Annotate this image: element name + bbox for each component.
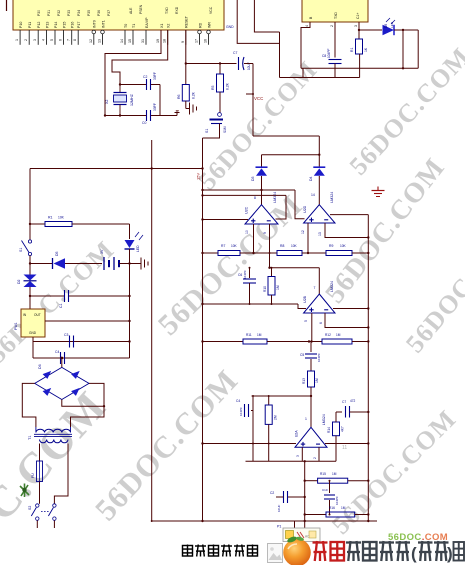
svg-text:GND: GND [29,331,37,335]
svg-text:10: 10 [245,230,249,234]
svg-text:3: 3 [33,39,37,41]
svg-text:P17: P17 [77,22,81,28]
svg-text:8.2K: 8.2K [226,82,230,90]
svg-text:15: 15 [128,39,132,43]
svg-text:): ) [447,544,453,563]
svg-text:10K: 10K [340,244,347,248]
svg-text:104PF: 104PF [335,496,339,505]
svg-text:FU: FU [31,473,35,478]
svg-text:30PF: 30PF [153,103,157,111]
svg-text:2M: 2M [274,415,278,420]
svg-text:C0: C0 [142,121,146,125]
svg-text:P31: P31 [47,10,51,16]
svg-text:C8: C8 [322,54,326,58]
svg-text:2: 2 [330,25,334,27]
svg-text:31: 31 [141,39,145,43]
svg-text:X2: X2 [105,100,109,104]
svg-text:LED: LED [390,21,394,28]
svg-text:16: 16 [204,39,208,43]
svg-text:C4: C4 [236,399,240,403]
svg-text:R8: R8 [280,244,284,248]
svg-text:ALE: ALE [129,7,133,14]
svg-text:12: 12 [301,230,305,234]
svg-text:104PF: 104PF [327,49,331,58]
svg-text:3: 3 [354,25,358,27]
svg-text:R1: R1 [48,216,53,220]
svg-text:2: 2 [24,39,28,41]
svg-text:P37: P37 [107,10,111,16]
svg-text:LM324: LM324 [330,192,334,203]
svg-text:X1: X1 [160,24,164,28]
svg-text:1M: 1M [332,472,337,476]
svg-text:P15: P15 [62,22,66,28]
svg-text:R14: R14 [327,427,331,433]
svg-text:9: 9 [181,41,185,43]
svg-text:17: 17 [195,39,199,43]
svg-text:P13: P13 [45,22,49,28]
svg-text:12MHZ: 12MHZ [130,93,134,106]
svg-text:472: 472 [350,399,356,403]
svg-text:D5: D5 [55,251,59,256]
svg-text:12: 12 [89,39,93,43]
svg-text:10K: 10K [231,244,238,248]
svg-text:7: 7 [67,39,71,41]
svg-text:13: 13 [318,232,322,236]
svg-text:S1: S1 [205,129,209,133]
svg-text:P14: P14 [54,22,58,28]
svg-text:D2: D2 [17,279,21,284]
svg-text:U2D: U2D [303,205,307,213]
svg-text:1K: 1K [364,47,368,52]
svg-text:14: 14 [120,39,124,43]
svg-text:WR: WR [207,22,211,28]
svg-text:10UF: 10UF [277,504,281,512]
svg-text:LM324: LM324 [322,414,326,425]
svg-text:8: 8 [254,196,256,200]
svg-text:R13: R13 [302,378,306,384]
svg-text:U2C: U2C [245,206,249,214]
svg-text:C1+: C1+ [356,13,360,19]
svg-text:PSEN: PSEN [139,4,143,14]
svg-text:RD: RD [198,22,202,28]
svg-text:1M: 1M [315,378,319,383]
svg-text:P11: P11 [28,22,32,28]
svg-text:P32: P32 [57,10,61,16]
svg-text:EA/VP: EA/VP [145,17,149,28]
svg-text:R16: R16 [329,506,335,510]
svg-text:VCC: VCC [254,96,263,101]
svg-text:R5: R5 [211,85,215,90]
svg-text:3V: 3V [100,249,104,254]
svg-text:P34: P34 [77,10,81,16]
svg-text:4K7: 4K7 [341,426,345,432]
svg-text:RXD: RXD [175,6,179,14]
svg-text:19: 19 [156,39,160,43]
svg-text:T1: T1 [132,24,136,28]
svg-text:30PF: 30PF [153,72,157,80]
svg-text:AC: AC [305,535,310,539]
svg-text:C4: C4 [55,350,59,354]
svg-text:104PF: 104PF [239,407,243,416]
svg-text:U2B: U2B [303,295,307,303]
svg-text:GND: GND [226,25,234,29]
svg-text:4: 4 [305,25,309,27]
svg-text:LM324: LM324 [273,192,277,203]
svg-text:T0: T0 [124,24,128,28]
svg-text:P36: P36 [97,10,101,16]
svg-text:U2A: U2A [295,430,299,438]
svg-text:9: 9 [263,232,267,234]
svg-text:10K: 10K [58,216,65,220]
svg-text:8.2K: 8.2K [192,91,196,99]
svg-text:104PF: 104PF [317,353,321,362]
svg-text:INT0: INT0 [93,20,97,28]
svg-text:4: 4 [42,39,46,41]
svg-text:VCC: VCC [209,6,213,14]
svg-text:C6: C6 [238,273,242,277]
svg-text:C10: C10 [322,488,328,492]
svg-text:R11: R11 [246,333,252,337]
svg-text:D4: D4 [309,176,313,181]
svg-text:S1: S1 [19,248,23,252]
svg-text:1: 1 [15,39,19,41]
svg-text:C2: C2 [143,75,147,79]
svg-text:(: ( [411,544,417,563]
svg-text:R10: R10 [263,286,267,292]
svg-text:TXD: TXD [165,7,169,14]
svg-text:C2: C2 [270,491,274,495]
svg-text:C5: C5 [300,353,304,357]
svg-text:11: 11 [342,445,347,451]
svg-text:1M: 1M [276,285,280,290]
svg-text:X2: X2 [167,24,171,28]
svg-text:T1: T1 [28,436,32,440]
svg-text:18: 18 [163,39,167,43]
svg-text:6: 6 [59,39,63,41]
svg-text:TXD: TXD [334,12,338,19]
svg-text:P33: P33 [67,10,71,16]
svg-text:P10: P10 [19,22,23,28]
svg-text:R1: R1 [350,48,354,52]
svg-text:P1: P1 [277,525,281,529]
svg-text:R7: R7 [221,244,225,248]
svg-text:8: 8 [73,39,77,41]
svg-text:14: 14 [311,193,315,197]
svg-text:INT1: INT1 [101,20,105,28]
svg-text:LED: LED [136,245,140,252]
svg-text:7: 7 [314,286,316,290]
svg-text:104PF: 104PF [243,270,247,279]
svg-text:P16: P16 [71,22,75,28]
svg-text:D6: D6 [38,364,42,369]
svg-text:5: 5 [50,39,54,41]
svg-text:RESET: RESET [185,15,189,28]
svg-text:PW1: PW1 [14,322,18,330]
svg-text:C7: C7 [233,51,237,55]
svg-text:1M: 1M [341,506,346,510]
svg-text:1: 1 [305,417,307,421]
svg-text:P30: P30 [37,10,41,16]
svg-text:13: 13 [98,39,102,43]
svg-text:P35: P35 [87,10,91,16]
svg-text:1M: 1M [336,333,341,337]
svg-text:C1: C1 [59,304,63,308]
svg-text:C7: C7 [342,400,346,404]
svg-text:S2: S2 [28,506,32,510]
svg-text:R12: R12 [325,333,331,337]
svg-text:LM324: LM324 [330,281,334,292]
svg-text:OUT: OUT [34,313,41,317]
svg-text:D3: D3 [251,176,255,181]
svg-text:R9: R9 [329,244,333,248]
svg-text:5: 5 [304,320,308,322]
svg-text:C3: C3 [64,333,68,337]
svg-text:2: 2 [313,457,317,459]
svg-text:P12: P12 [37,22,41,28]
svg-text:15V: 15V [196,173,201,180]
svg-text:10K: 10K [291,244,298,248]
svg-text:S1M: S1M [223,126,227,133]
svg-text:1M: 1M [257,333,262,337]
svg-text:D9: D9 [384,24,388,28]
svg-text:3: 3 [296,455,300,457]
svg-text:6: 6 [319,322,323,324]
svg-text:R6: R6 [177,94,181,99]
svg-text:R15: R15 [320,472,326,476]
